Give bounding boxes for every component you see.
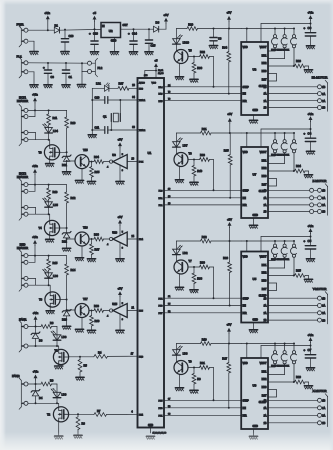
junction C14: [133, 28, 135, 30]
junction MS1: [274, 28, 276, 30]
Z-MOTOR pin 2A b: [318, 203, 322, 207]
ground T16: [75, 258, 83, 261]
wire pin3-pin4 bridge: [35, 207, 37, 214]
junction MS3: [293, 343, 295, 345]
wire: [314, 197, 317, 199]
svg-text:PA1: PA1: [159, 197, 164, 200]
EXT2 pin 1: [21, 183, 28, 187]
wire pullup to EN row: [228, 62, 230, 94]
wire: [305, 170, 309, 172]
jumper MS3 U7: [268, 133, 297, 171]
wire: [79, 372, 81, 377]
junction: [34, 255, 36, 257]
Z-MOTOR pin 1B b: [318, 188, 322, 192]
wire PF5 to driver: [164, 399, 241, 401]
wire: [308, 276, 310, 280]
EXT2 pin 3: [21, 205, 28, 209]
svg-text:2B: 2B: [322, 422, 325, 425]
resistor R36: [192, 63, 196, 74]
wire to C5: [310, 237, 312, 246]
zener D21: [62, 155, 71, 161]
wire PA1 to driver: [164, 197, 241, 199]
junction MS3 resistor: [293, 381, 295, 383]
wire EXT2 pin2: [29, 190, 35, 192]
wire 1B output: [268, 86, 318, 88]
PL2 pin 1: [88, 61, 92, 65]
wire LED cathode: [56, 398, 58, 404]
wire: [193, 57, 195, 63]
wire buffer Vcc: [119, 297, 121, 307]
wire PA5 to driver: [164, 100, 241, 102]
wire: [91, 177, 93, 181]
net rail stage T5: [176, 28, 187, 30]
capacitor C6: [305, 33, 315, 36]
wire PL2 pin2: [82, 71, 88, 73]
junction MS1: [274, 132, 276, 134]
svg-text:1A: 1A: [322, 197, 325, 200]
ground R40: [190, 182, 198, 185]
resistor R65: [90, 167, 94, 178]
svg-text:MS1C MS2C MS3C1: MS1C MS2C MS3C1: [271, 366, 289, 368]
wire PL1 pin2: [29, 71, 34, 73]
svg-text:Z-MOTOR: Z-MOTOR: [313, 179, 328, 183]
svg-text:T8: T8: [39, 298, 43, 302]
wire R to LED: [52, 383, 58, 385]
wire R to LED: [48, 125, 50, 128]
EXT2 pin 2: [21, 189, 28, 193]
wire: [66, 162, 68, 172]
svg-text:21: 21: [132, 308, 135, 310]
LED LD6: [43, 269, 53, 278]
resistor R68: [94, 309, 104, 313]
wire 1A output: [268, 93, 318, 95]
svg-text:U5: U5: [253, 277, 257, 281]
resistor R19: [201, 342, 212, 346]
LED LD9: [51, 388, 61, 397]
svg-text:+5V: +5V: [227, 11, 232, 15]
power +5 MCU: [154, 63, 158, 68]
wire 1A output: [268, 305, 318, 307]
wire source: [49, 235, 51, 239]
wire +Vin drop: [34, 103, 36, 117]
junction MS1: [274, 240, 276, 242]
junction: [91, 238, 93, 240]
junction: [193, 266, 195, 268]
wire to C4: [310, 129, 312, 138]
stepper driver U6: [241, 358, 268, 429]
svg-text:R4: R4: [98, 351, 102, 355]
wire: [193, 284, 195, 290]
Y-MOTOR pin 1A: [318, 304, 322, 308]
svg-text:+5V: +5V: [118, 138, 123, 142]
wire BED +Vin rail: [28, 255, 67, 257]
svg-text:R30: R30: [200, 261, 205, 265]
capacitor C11: [105, 127, 108, 134]
wire rail to LED: [175, 241, 177, 249]
BED pin 4: [21, 283, 28, 287]
wire: [47, 73, 49, 84]
wire rail jumpers: [241, 132, 294, 134]
svg-text:R28: R28: [296, 59, 301, 63]
wire emitter: [81, 169, 83, 181]
ground R24: [304, 175, 312, 178]
svg-text:PG4: PG4: [139, 162, 144, 164]
zener D22: [62, 232, 71, 238]
svg-text:1B: 1B: [322, 190, 325, 193]
svg-text:Q1: Q1: [103, 115, 107, 119]
wire: [314, 204, 317, 206]
svg-text:PF7: PF7: [158, 313, 163, 315]
svg-text:2B: 2B: [322, 211, 325, 214]
LED LD10: [173, 35, 183, 44]
wire D8 to +5V: [158, 28, 166, 30]
wire RST-SLEEP loop U3: [268, 74, 277, 82]
net rail stage T9: [176, 343, 200, 345]
power +5V arrow: [164, 18, 168, 24]
transistor T15: [75, 155, 89, 169]
svg-text:MS3: MS3: [262, 175, 268, 178]
resistor R13: [47, 188, 51, 199]
svg-text:PF3: PF3: [158, 306, 163, 308]
svg-text:C1: C1: [69, 75, 73, 79]
wire LED to drain: [48, 207, 50, 214]
connector PL1: [19, 57, 24, 78]
connector PWR: [19, 26, 24, 47]
junction MS3 resistor: [293, 65, 295, 67]
wire to C10: [92, 99, 105, 101]
power +5V stage T6: [228, 118, 232, 124]
wire +Vin drop: [35, 380, 37, 384]
ground C5: [306, 259, 314, 262]
resistor R34: [227, 52, 231, 63]
junction: [79, 356, 81, 358]
wire PF4 to driver: [164, 297, 241, 299]
junction: [246, 343, 248, 345]
LED LD1: [105, 83, 110, 92]
wire: [91, 326, 93, 330]
junction: [228, 343, 230, 345]
svg-text:4: 4: [131, 411, 133, 413]
svg-text:FAN2: FAN2: [12, 374, 20, 378]
wire MCU GND: [150, 428, 152, 434]
FAN1 pin 1: [21, 325, 28, 329]
MOSFET T4: [44, 220, 59, 235]
wire +5V to rail: [229, 123, 231, 133]
power +5V U13: [118, 220, 122, 226]
ground D23: [63, 326, 71, 329]
wire 2A output: [268, 100, 318, 102]
wire 1A output: [268, 407, 318, 409]
wire pullup to EN row: [229, 165, 231, 198]
wire rail to LED: [175, 29, 177, 39]
junction: [48, 213, 50, 215]
wire 2B output: [268, 107, 318, 109]
ground D22: [63, 248, 71, 251]
svg-text:PF1: PF1: [158, 415, 163, 417]
junction: [48, 284, 50, 286]
ground D21: [63, 172, 71, 175]
wire BED pin4: [28, 284, 49, 286]
wire EXT1 pin3: [28, 132, 36, 134]
svg-text:+: +: [304, 239, 306, 243]
ground T3: [46, 164, 54, 167]
svg-text:HEATER: HEATER: [17, 246, 28, 250]
svg-text:+: +: [304, 348, 306, 352]
svg-text:R38: R38: [197, 277, 202, 281]
jumper MS1 U3: [268, 29, 278, 52]
power +Vin U6: [309, 337, 313, 343]
svg-text:2A: 2A: [322, 204, 325, 207]
wire T1 gate: [69, 356, 94, 358]
ground PWR: [30, 52, 38, 55]
junction: [229, 132, 231, 134]
wire: [314, 211, 317, 213]
wire R to LED: [48, 270, 50, 273]
EXT1 pin 4: [21, 138, 28, 142]
wire rail to VDD: [211, 343, 241, 345]
connector E1-MOTOR bracket: [325, 80, 327, 111]
junction: [47, 29, 49, 31]
junction MS1: [274, 343, 276, 345]
wire VDD: [246, 344, 248, 359]
ground T8: [46, 311, 54, 314]
wire rail jumpers: [241, 343, 294, 345]
resistor R28: [295, 64, 306, 68]
stepper driver U3: [241, 42, 268, 115]
wire base: [188, 159, 200, 161]
svg-text:+5V: +5V: [227, 217, 232, 221]
wire base net to STEP row: [213, 160, 215, 191]
buffer U15: [110, 304, 128, 318]
svg-text:XTAL1: XTAL1: [139, 99, 146, 102]
svg-text:LD7: LD7: [183, 143, 188, 147]
ground U3: [249, 120, 257, 123]
resistor R4: [94, 355, 108, 359]
resistor R27: [227, 363, 231, 374]
ground crystal: [88, 135, 96, 138]
wire gate: [60, 299, 67, 301]
svg-text:+: +: [43, 66, 45, 70]
wire: [66, 256, 68, 264]
junction gate: [66, 299, 68, 301]
wire AVCC bridge: [145, 70, 156, 72]
FAN1 pin 2: [21, 344, 28, 348]
svg-text:+Vin: +Vin: [32, 235, 38, 239]
wire buffer Vcc: [119, 148, 121, 158]
svg-text:C7: C7: [308, 348, 312, 352]
ground C6: [306, 46, 314, 49]
wire U2 OUT rail: [121, 28, 154, 30]
wire 1A output: [268, 197, 309, 199]
resistor R6: [41, 325, 52, 329]
ground C15: [145, 52, 153, 55]
transistor T17: [75, 304, 89, 318]
wire crystal b: [110, 121, 112, 130]
svg-text:100: 100: [144, 75, 148, 77]
svg-text:33: 33: [132, 127, 135, 129]
diode D8: [154, 26, 159, 32]
E1-MOTOR pin 1A: [318, 92, 322, 96]
LED LD7: [173, 138, 183, 147]
svg-text:1B: 1B: [264, 297, 267, 300]
jumper MS1 U7: [268, 133, 278, 156]
wire: [148, 43, 150, 51]
wire pin3-pin4 bridge: [35, 278, 37, 285]
wire column: [66, 203, 68, 233]
junction: [34, 184, 36, 186]
resistor R8: [76, 417, 80, 430]
Z-MOTOR pin 2B a: [310, 210, 314, 214]
ground U2: [110, 52, 118, 55]
svg-text:1A: 1A: [264, 197, 267, 200]
junction MS3: [293, 240, 295, 242]
resistor R26: [228, 262, 232, 273]
wire to LD1: [92, 87, 104, 89]
wire D21 node to T15 base: [67, 160, 75, 162]
transistor T6: [174, 153, 188, 167]
svg-text:C3: C3: [218, 37, 222, 41]
wire: [65, 73, 67, 84]
svg-text:U6: U6: [253, 383, 257, 387]
wire cap gnd: [310, 36, 312, 46]
wire base: [188, 367, 200, 369]
svg-text:R65: R65: [95, 170, 100, 174]
svg-text:FAN1: FAN1: [19, 318, 27, 322]
zener D4: [31, 390, 40, 396]
svg-text:R64: R64: [94, 155, 99, 159]
power +Vin: [46, 16, 50, 22]
power +Vin FAN2: [34, 375, 38, 381]
X-MOTOR pin 1B: [318, 398, 322, 402]
svg-text:R31: R31: [200, 361, 205, 365]
svg-text:R19: R19: [202, 337, 207, 341]
wire gate: [60, 151, 67, 153]
junction MS3 resistor: [293, 170, 295, 172]
resistor R32: [200, 55, 210, 59]
junction: [91, 310, 93, 312]
LED LD3: [173, 346, 183, 355]
svg-text:2B: 2B: [264, 422, 267, 425]
svg-text:2A: 2A: [322, 100, 325, 103]
wire U13 to MCU: [127, 238, 137, 240]
wire rail to pullup: [228, 29, 230, 52]
svg-text:T16: T16: [83, 226, 88, 230]
svg-text:STEP: STEP: [243, 297, 250, 300]
wire rail to LED: [175, 344, 177, 350]
wire to MOSFET drain: [49, 284, 51, 286]
capacitor C3: [210, 38, 217, 41]
junction: [34, 109, 36, 111]
wire cap gnd: [310, 249, 312, 259]
stepper driver U7: [241, 147, 268, 218]
wire PL1 rail: [28, 62, 88, 64]
wire to C11: [92, 129, 105, 131]
ground U15: [116, 330, 124, 333]
resistor R38: [192, 273, 196, 284]
svg-text:+Vin: +Vin: [33, 311, 39, 315]
power +5V U15: [118, 291, 122, 297]
PL1 pin 1: [21, 61, 28, 65]
svg-text:HEATER: HEATER: [17, 175, 28, 179]
E1-MOTOR pin 1B: [318, 85, 322, 89]
svg-text:MS2: MS2: [262, 378, 268, 381]
capacitor C15: [145, 40, 152, 43]
svg-text:VMOT: VMOT: [260, 46, 267, 49]
buffer U8: [110, 155, 128, 169]
wire column: [66, 128, 68, 156]
svg-text:XTAL2: XTAL2: [139, 129, 146, 132]
svg-text:PB4: PB4: [139, 239, 144, 241]
svg-text:17: 17: [131, 353, 134, 355]
resistor R67: [90, 244, 94, 255]
wire +Vin to VMOT: [261, 345, 311, 347]
wire to C13: [94, 29, 96, 41]
svg-text:R24: R24: [296, 164, 301, 168]
ground C14: [129, 52, 137, 55]
LED LD5: [43, 198, 53, 207]
junction R pin: [48, 255, 50, 257]
junction MS2: [284, 28, 286, 30]
connector FAN2: [19, 378, 24, 409]
wire base net to STEP row: [213, 267, 215, 298]
capacitor C10: [105, 97, 108, 104]
wire to C18: [64, 30, 66, 39]
svg-text:MS2: MS2: [262, 272, 268, 275]
junction: [91, 129, 93, 131]
wire LD1/C10/C11 column: [91, 88, 93, 134]
ground C3: [209, 46, 217, 49]
wire LED to drain: [48, 133, 50, 140]
svg-text:1B: 1B: [264, 86, 267, 89]
junction: [48, 139, 50, 141]
svg-text:PA5: PA5: [159, 100, 164, 103]
wire EXT2 pin4: [28, 213, 49, 215]
wire EXT1 pin2: [29, 116, 35, 118]
svg-text:RST: RST: [262, 395, 267, 398]
svg-text:T9: T9: [189, 360, 193, 364]
wire 1B output: [268, 189, 309, 191]
svg-text:1B: 1B: [322, 297, 325, 300]
jumper MS3 U3: [268, 29, 297, 67]
svg-text:D8: D8: [156, 21, 160, 25]
svg-text:C5: C5: [308, 239, 312, 243]
svg-text:T17: T17: [83, 297, 88, 301]
wire 2A output: [268, 312, 318, 314]
Y-MOTOR pin 1B: [318, 296, 322, 300]
ground C7: [306, 368, 314, 371]
power +Vin EXT2: [33, 169, 37, 175]
connector Z-MOTOR bracket: [325, 184, 327, 216]
wire VMOT: [260, 237, 262, 252]
svg-text:R11: R11: [53, 116, 58, 120]
wire 2A output: [268, 414, 318, 416]
net rail stage T7: [176, 240, 200, 242]
wire: [48, 185, 50, 189]
wire: [193, 368, 195, 374]
junction MS2: [284, 343, 286, 345]
junction: [213, 399, 215, 401]
svg-text:LD6: LD6: [53, 274, 58, 278]
wire rail to VDD: [211, 240, 241, 242]
wire: [210, 159, 214, 161]
svg-text:VDD: VDD: [243, 151, 248, 154]
wire pullup to EN row: [229, 273, 231, 306]
svg-text:1A: 1A: [264, 305, 267, 308]
svg-text:1B: 1B: [322, 400, 325, 403]
junction MS2: [284, 240, 286, 242]
wire gate: [60, 227, 67, 229]
wire rail jumpers: [241, 240, 294, 242]
